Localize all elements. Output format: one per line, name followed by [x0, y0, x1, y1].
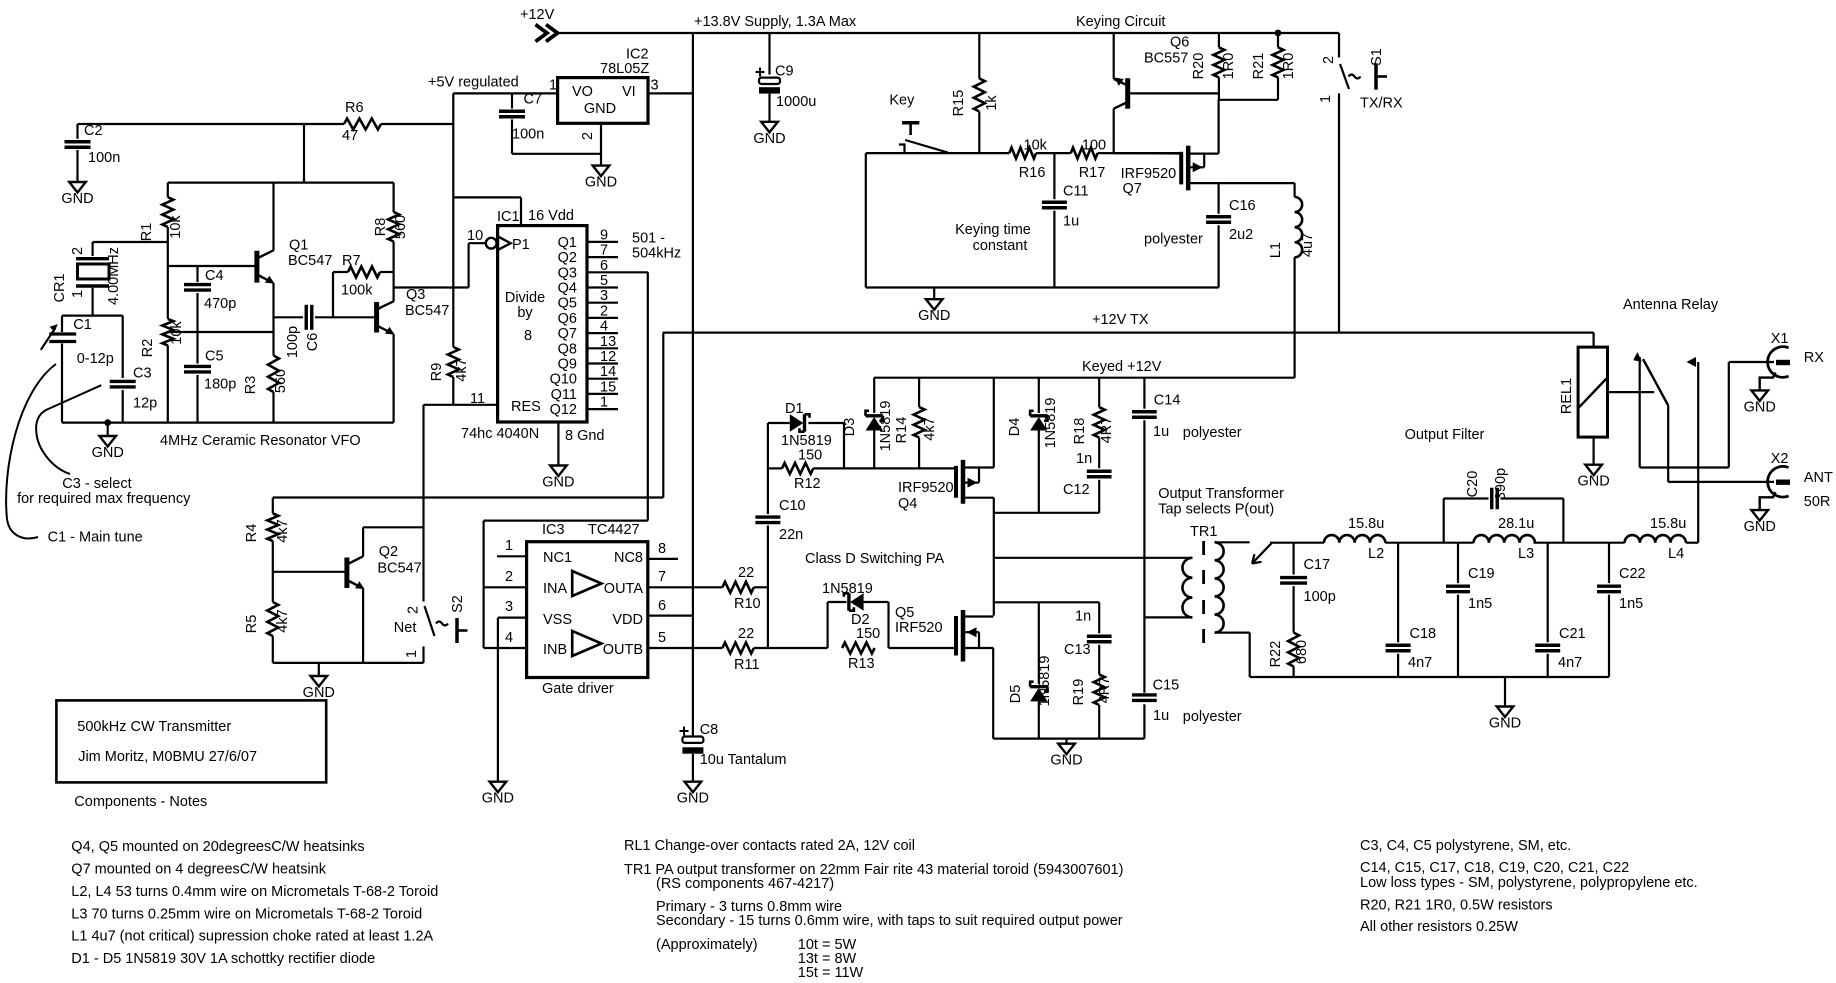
wire filter input: [1270, 542, 1324, 544]
svg-text:8: 8: [658, 541, 666, 557]
svg-text:C1: C1: [73, 317, 92, 333]
resistor R2: [162, 319, 173, 346]
capacitor C15: [1132, 693, 1157, 696]
svg-text:R12: R12: [794, 476, 821, 492]
wire drain node to TR1: [994, 557, 1193, 559]
svg-text:C11: C11: [1063, 184, 1089, 200]
wire Q2 collector: [362, 545, 364, 557]
svg-text:BC547: BC547: [405, 303, 449, 319]
svg-text:Tap selects P(out): Tap selects P(out): [1158, 502, 1274, 518]
ground C2: [69, 182, 86, 193]
svg-text:504kHz: 504kHz: [632, 246, 681, 262]
svg-text:22: 22: [738, 626, 754, 642]
ground IC3 VSS: [490, 782, 507, 793]
svg-text:GND: GND: [92, 445, 124, 461]
pin IC3 8 NC8: [648, 558, 678, 560]
svg-text:R20: R20: [1191, 53, 1207, 80]
switch S2 Net: [425, 606, 435, 636]
wire Q4 source: [993, 378, 995, 468]
svg-text:Q1: Q1: [289, 238, 308, 254]
svg-text:1n: 1n: [1076, 451, 1092, 467]
capacitor C3: [122, 316, 124, 378]
svg-text:C19: C19: [1468, 566, 1495, 582]
svg-text:L4: L4: [1668, 546, 1684, 562]
ground C8: [685, 782, 702, 793]
svg-text:GND: GND: [61, 191, 93, 207]
svg-text:(Approximately): (Approximately): [656, 937, 758, 953]
capacitor C18: [1397, 543, 1399, 643]
svg-text:1R0: 1R0: [1221, 53, 1237, 80]
svg-text:R10: R10: [734, 596, 761, 612]
svg-text:0-12p: 0-12p: [77, 351, 114, 367]
wire TR1 secondary bottom: [1215, 631, 1250, 633]
wire Q5 source: [992, 648, 994, 739]
transistor Q7 IRF9520: [1179, 152, 1183, 185]
wire drain snubber line: [994, 601, 1099, 603]
resistor R9: [448, 347, 459, 377]
svg-text:16 Vdd: 16 Vdd: [528, 208, 574, 224]
ground keying: [933, 288, 935, 300]
wire key line: [866, 152, 1010, 154]
resistor R17: [1071, 148, 1098, 159]
svg-text:501 -: 501 -: [632, 231, 665, 247]
transistor Q2: [273, 571, 347, 573]
svg-text:C16: C16: [1229, 198, 1256, 214]
relay REL1 coil: [1578, 347, 1607, 437]
svg-text:L1: L1: [1268, 242, 1284, 258]
svg-text:22n: 22n: [779, 527, 803, 543]
svg-text:Q4, Q5 mounted on 20degreesC/W: Q4, Q5 mounted on 20degreesC/W heatsinks: [71, 839, 364, 855]
svg-text:Q3: Q3: [406, 287, 425, 303]
svg-text:L2, L4 53 turns 0.4mm wire on: L2, L4 53 turns 0.4mm wire on Micrometal…: [71, 884, 438, 900]
capacitor C22: [1608, 543, 1610, 583]
svg-text:C20: C20: [1465, 471, 1481, 498]
svg-text:1: 1: [505, 538, 513, 554]
ground X2: [1751, 510, 1768, 520]
diode D1: [768, 422, 790, 424]
svg-text:C22: C22: [1619, 566, 1646, 582]
svg-text:1N5819: 1N5819: [878, 401, 894, 452]
svg-text:Keyed +12V: Keyed +12V: [1082, 359, 1162, 375]
wire IC1 Vdd pin 16: [453, 196, 521, 198]
capacitor C12: [1098, 438, 1100, 469]
svg-text:Q10: Q10: [550, 372, 577, 388]
wire REL1 ground: [1592, 437, 1594, 465]
resistor R21: [1275, 30, 1282, 37]
svg-text:12p: 12p: [133, 396, 157, 412]
wire drive net horizontal: [484, 519, 648, 521]
svg-text:GND: GND: [918, 308, 950, 324]
wire R1/R2 node to base: [167, 242, 169, 319]
box title: [56, 700, 326, 782]
IC IC1 74hc4040: [498, 226, 587, 422]
transistor Q6 BC557: [1113, 33, 1115, 79]
svg-text:1000u: 1000u: [776, 94, 816, 110]
svg-text:Antenna Relay: Antenna Relay: [1623, 297, 1719, 313]
svg-text:VO: VO: [572, 84, 593, 100]
pin IC1 Q3 (6): [587, 271, 648, 273]
svg-text:4.00MHz: 4.00MHz: [106, 247, 122, 305]
inductor L4: [1625, 535, 1686, 543]
svg-text:560: 560: [273, 369, 289, 393]
svg-text:Divide: Divide: [505, 290, 545, 306]
pin IC1 Q5 (3): [587, 302, 618, 304]
svg-text:S2: S2: [450, 595, 466, 613]
diode D5: [1038, 602, 1040, 684]
svg-text:D1: D1: [785, 401, 804, 417]
svg-text:4R7: 4R7: [1097, 677, 1113, 704]
svg-text:R9: R9: [429, 363, 445, 382]
diode D2: [828, 601, 847, 603]
svg-text:2: 2: [600, 303, 608, 319]
pin IC3 2 INA: [484, 586, 527, 588]
ground IC2: [593, 166, 610, 177]
svg-text:100k: 100k: [341, 283, 373, 299]
svg-text:VSS: VSS: [543, 612, 572, 628]
capacitor C9: [768, 33, 770, 75]
svg-text:C8: C8: [700, 722, 719, 738]
svg-text:5: 5: [600, 273, 608, 289]
svg-text:2: 2: [505, 569, 513, 585]
svg-text:Q3: Q3: [558, 265, 577, 281]
svg-text:GND: GND: [677, 791, 709, 807]
svg-text:R6: R6: [345, 100, 364, 116]
svg-text:390p: 390p: [1493, 468, 1509, 500]
svg-text:INB: INB: [543, 642, 567, 658]
svg-text:74hc 4040N: 74hc 4040N: [461, 426, 539, 442]
svg-text:constant: constant: [973, 238, 1028, 254]
svg-text:4n7: 4n7: [1558, 655, 1582, 671]
svg-text:GND: GND: [585, 175, 617, 191]
resistor R5: [272, 572, 274, 602]
wire IC2 VO to +5V node: [453, 92, 557, 94]
svg-text:L3: L3: [1518, 546, 1534, 562]
svg-text:3: 3: [651, 78, 659, 94]
svg-text:CR1: CR1: [52, 273, 68, 302]
svg-text:500kHz CW Transmitter: 500kHz CW Transmitter: [77, 719, 231, 735]
capacitor C5: [196, 332, 198, 364]
pin IC1 Q7 (4): [587, 332, 618, 334]
svg-text:4k7: 4k7: [922, 417, 938, 440]
wire C1/C3 top: [62, 315, 123, 317]
wire Q7 source up: [1217, 100, 1219, 154]
svg-text:Q4: Q4: [898, 496, 917, 512]
resistor R6: [344, 119, 381, 130]
svg-text:C3, C4, C5 polystyrene, SM, et: C3, C4, C5 polystyrene, SM, etc.: [1360, 838, 1571, 854]
svg-text:14: 14: [600, 364, 616, 380]
svg-text:Q5: Q5: [558, 296, 577, 312]
wire Q4 gate line: [844, 467, 954, 469]
svg-text:IC1: IC1: [497, 209, 520, 225]
svg-text:polyester: polyester: [1183, 425, 1242, 441]
svg-text:15.8u: 15.8u: [1348, 516, 1384, 532]
svg-text:TC4427: TC4427: [588, 522, 640, 538]
wire keying ground rail: [866, 286, 1219, 288]
svg-text:47: 47: [342, 128, 358, 144]
wire TR1 secondary top: [1215, 541, 1250, 543]
wire VSS to ground: [497, 618, 499, 782]
resistor R16: [1009, 148, 1036, 159]
svg-text:by: by: [517, 305, 533, 321]
wire Q1 emitter: [272, 283, 274, 356]
wire Q3 out to P1: [394, 286, 469, 288]
svg-text:7: 7: [658, 569, 666, 585]
svg-text:+12V: +12V: [520, 7, 555, 23]
wire +5V vertical: [452, 93, 454, 347]
wire Q7 gate: [1114, 152, 1182, 154]
svg-text:IC3: IC3: [542, 522, 565, 538]
pin IC1 Q9 (12): [587, 362, 618, 364]
wire Q1 collector: [272, 183, 274, 251]
resistor R19: [1094, 675, 1105, 706]
svg-text:GND: GND: [1744, 399, 1776, 415]
diode D4: [1038, 378, 1040, 413]
svg-text:GND: GND: [753, 131, 785, 147]
svg-text:2u2: 2u2: [1229, 227, 1253, 243]
regulator IC2 78L05Z: [558, 78, 648, 124]
svg-text:R2: R2: [140, 339, 156, 358]
wire IC2 VI to +12V rail: [648, 92, 693, 94]
IC IC3 TC4427: [527, 542, 648, 678]
svg-text:Class D Switching PA: Class D Switching PA: [805, 551, 944, 567]
svg-text:6: 6: [658, 598, 666, 614]
pin IC1 Q1 (9): [587, 241, 618, 243]
switch S1 TX/RX: [1338, 33, 1340, 58]
capacitor C20 bridge: [1443, 499, 1445, 543]
svg-text:R1: R1: [139, 223, 155, 242]
svg-text:BC547: BC547: [288, 253, 332, 269]
annotation leader C3: [36, 385, 101, 474]
svg-text:8 Gnd: 8 Gnd: [565, 428, 605, 444]
ground filter: [1504, 677, 1506, 707]
svg-text:Q2: Q2: [379, 544, 398, 560]
wire to X2 ANT: [1668, 481, 1774, 483]
svg-text:OUTB: OUTB: [603, 642, 643, 658]
svg-text:R11: R11: [734, 657, 760, 673]
svg-text:100: 100: [1082, 138, 1106, 154]
svg-text:C6: C6: [305, 333, 321, 352]
ground REL1: [1585, 465, 1602, 476]
wire Q4 drain: [993, 498, 995, 616]
svg-text:10k: 10k: [168, 215, 184, 239]
svg-text:R20, R21 1R0, 0.5W resistors: R20, R21 1R0, 0.5W resistors: [1360, 898, 1553, 914]
wire R1 to CR1: [93, 241, 168, 243]
svg-text:12: 12: [600, 349, 616, 365]
capacitor C17: [1292, 543, 1294, 575]
svg-text:Components - Notes: Components - Notes: [74, 794, 207, 810]
wire Q7 drain to L1: [1219, 182, 1295, 184]
ground IC1: [550, 466, 567, 477]
svg-text:680: 680: [1294, 640, 1310, 664]
svg-text:ANT: ANT: [1804, 470, 1833, 486]
svg-text:R5: R5: [244, 615, 260, 634]
svg-text:Keying Circuit: Keying Circuit: [1076, 14, 1165, 30]
svg-text:C13: C13: [1064, 642, 1091, 658]
svg-text:4u7: 4u7: [1300, 233, 1316, 257]
svg-text:L1 4u7 (not critical) supressi: L1 4u7 (not critical) supression choke r…: [71, 929, 433, 945]
capacitor C10: [767, 423, 769, 514]
capacitor C16: [1217, 183, 1219, 214]
wire +13.8V supply rail: [557, 32, 1339, 34]
transistor Q3: [374, 302, 379, 333]
resistor R15: [978, 33, 980, 78]
resistor R18: [1098, 378, 1100, 408]
svg-text:28.1u: 28.1u: [1498, 516, 1534, 532]
resistor R7: [332, 272, 334, 317]
wire Q2 ground rail: [273, 662, 424, 664]
svg-text:RES: RES: [511, 399, 541, 415]
pin IC1 Q4 (5): [587, 286, 618, 288]
ground PA: [1065, 739, 1067, 744]
svg-text:150: 150: [798, 448, 822, 464]
svg-text:GND: GND: [1744, 519, 1776, 535]
svg-text:IRF520: IRF520: [895, 620, 943, 636]
svg-text:R16: R16: [1019, 165, 1046, 181]
svg-text:GND: GND: [542, 475, 574, 491]
wire filter ground rail: [1250, 676, 1609, 678]
svg-text:R3: R3: [243, 376, 259, 395]
resistor R14: [918, 378, 920, 407]
svg-text:All other resistors 0.25W: All other resistors 0.25W: [1360, 919, 1518, 935]
svg-text:IRF9520: IRF9520: [1121, 166, 1177, 182]
svg-text:3: 3: [600, 288, 608, 304]
svg-text:BC547: BC547: [377, 561, 421, 577]
resistor R4: [272, 498, 274, 514]
svg-text:Q8: Q8: [558, 341, 577, 357]
pin IC1 Q6 (2): [587, 317, 618, 319]
pin IC1 Q12 (1): [587, 408, 618, 410]
capacitor C14: [1143, 378, 1145, 409]
svg-text:Q6: Q6: [558, 311, 577, 327]
svg-text:1: 1: [70, 290, 86, 298]
resistor R3: [268, 356, 279, 393]
svg-text:R22: R22: [1268, 641, 1284, 668]
svg-text:R15: R15: [951, 90, 967, 117]
svg-text:2: 2: [580, 132, 596, 140]
wire Q5 gate line: [889, 647, 955, 649]
svg-text:C18: C18: [1410, 626, 1437, 642]
resistor R22: [1288, 633, 1299, 667]
svg-text:Q5: Q5: [895, 605, 914, 621]
svg-text:C15: C15: [1153, 678, 1180, 694]
capacitor C21: [1547, 543, 1549, 643]
inductor L3: [1474, 535, 1535, 543]
svg-text:C14: C14: [1154, 393, 1181, 409]
pin IC3 1 NC1: [497, 555, 527, 557]
transistor Q4 IRF9520: [954, 466, 958, 498]
svg-text:100n: 100n: [512, 127, 544, 143]
resistor R8: [393, 183, 395, 212]
capacitor C8: [680, 730, 689, 732]
svg-text:13: 13: [600, 334, 616, 350]
svg-text:1R0: 1R0: [1281, 53, 1297, 80]
svg-text:C3: C3: [133, 366, 152, 382]
svg-text:D3: D3: [842, 418, 858, 437]
svg-text:C9: C9: [775, 64, 794, 80]
svg-text:5: 5: [658, 630, 666, 646]
transistor Q1: [168, 265, 257, 267]
svg-text:R19: R19: [1071, 679, 1087, 706]
svg-text:C21: C21: [1559, 626, 1586, 642]
svg-text:4: 4: [600, 319, 608, 335]
svg-text:1N5819: 1N5819: [1043, 398, 1059, 449]
svg-text:+5V regulated: +5V regulated: [428, 75, 519, 91]
pin IC3 4 INB: [484, 647, 527, 649]
pin IC1 Q11 (15): [587, 393, 618, 395]
svg-text:10: 10: [467, 228, 483, 244]
svg-text:L2: L2: [1368, 546, 1384, 562]
pin IC1 Q8 (13): [587, 347, 618, 349]
svg-text:Output Transformer: Output Transformer: [1158, 486, 1284, 502]
svg-text:Q2: Q2: [558, 250, 577, 266]
svg-text:Q7: Q7: [1123, 181, 1142, 197]
wire VFO supply riser: [303, 124, 305, 183]
svg-text:VI: VI: [622, 84, 636, 100]
annotation leader C1: [6, 364, 56, 538]
svg-text:R4: R4: [244, 524, 260, 543]
wire Q4 drain link: [994, 512, 1099, 514]
svg-text:BC557: BC557: [1144, 51, 1188, 67]
svg-text:Q1: Q1: [558, 235, 577, 251]
wire relay link: [1608, 391, 1655, 393]
wire Q3 emitter: [393, 334, 395, 423]
wire IC2 GND pin: [600, 123, 602, 165]
svg-text:1n: 1n: [1075, 609, 1091, 625]
svg-text:100p: 100p: [285, 326, 301, 358]
wire REL1 supply: [1592, 333, 1594, 348]
resistor R1: [167, 183, 169, 198]
capacitor C13: [1098, 602, 1100, 633]
svg-text:D4: D4: [1007, 418, 1023, 437]
svg-text:R13: R13: [848, 656, 875, 672]
svg-text:D5: D5: [1008, 685, 1024, 704]
svg-text:Q7: Q7: [558, 326, 577, 342]
svg-text:polyester: polyester: [1183, 709, 1242, 725]
svg-text:RX: RX: [1804, 350, 1824, 366]
svg-text:4R7: 4R7: [1099, 417, 1115, 444]
capacitor C1 variable: [61, 316, 63, 332]
svg-text:1u: 1u: [1153, 708, 1169, 724]
inductor L2: [1324, 535, 1385, 543]
ground VFO: [99, 436, 116, 447]
svg-text:Q4: Q4: [558, 281, 577, 297]
wire R20 R21 join: [1219, 99, 1278, 101]
wire L4 out: [1686, 542, 1698, 544]
svg-text:4k7: 4k7: [275, 519, 291, 542]
svg-text:1n5: 1n5: [1468, 596, 1492, 612]
svg-text:11: 11: [470, 391, 485, 407]
wire +12V TX line: [663, 332, 1594, 334]
svg-text:R14: R14: [894, 417, 910, 444]
wire Q2 emitter: [362, 589, 364, 663]
svg-text:Output Filter: Output Filter: [1405, 427, 1485, 443]
svg-text:15: 15: [600, 379, 616, 395]
resistor R12: [768, 467, 782, 469]
svg-text:C5: C5: [205, 349, 224, 365]
resistor R13: [842, 643, 875, 654]
svg-text:R8: R8: [373, 218, 389, 237]
svg-text:15t = 11W: 15t = 11W: [798, 965, 864, 981]
svg-text:for required max frequency: for required max frequency: [17, 491, 191, 507]
pin IC3 5 OUTB: [648, 647, 723, 649]
pin IC1 Q10 (14): [587, 378, 618, 380]
wire C4 bottom node: [168, 331, 274, 333]
svg-text:1: 1: [1318, 95, 1334, 103]
wire +12V vertical rail (to VDD and C8): [692, 33, 694, 736]
svg-text:9: 9: [600, 227, 608, 243]
svg-text:GND: GND: [482, 791, 514, 807]
wire to X1: [1729, 361, 1774, 363]
